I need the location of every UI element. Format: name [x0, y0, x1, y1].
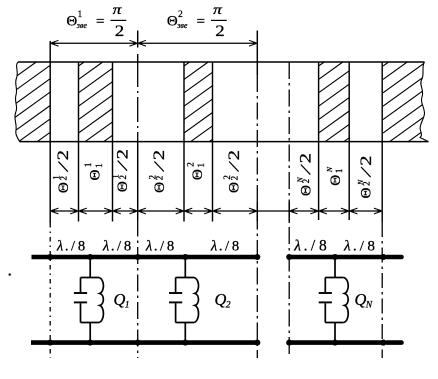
svg-text:2: 2	[296, 153, 315, 163]
center line x=382 lower dash-dot	[381, 222, 383, 358]
svg-text:Θ: Θ	[226, 182, 243, 193]
wire stem bottom of Q2	[184, 323, 186, 343]
svg-text:2: 2	[186, 162, 196, 167]
svg-text:2: 2	[229, 176, 239, 181]
rotated label Theta^1_2/2	[52, 150, 73, 193]
hatch fill block A	[12, 62, 50, 142]
svg-text:2: 2	[112, 149, 131, 159]
loop bottom bar	[325, 322, 344, 324]
center line x=50 dash-dot lower part	[49, 223, 51, 358]
stripline bar bottom edge	[20, 141, 429, 143]
wire stem top of Q2	[184, 257, 186, 278]
hatch fill block E	[383, 62, 429, 142]
bottom transmission line left span	[31, 340, 257, 345]
svg-text:Θ: Θ	[55, 182, 72, 193]
wire stem bottom of Q1	[89, 323, 91, 343]
svg-text:1: 1	[196, 163, 206, 168]
svg-text:Θ: Θ	[87, 170, 104, 181]
svg-text:Θ: Θ	[358, 188, 375, 199]
hatch fill block D	[319, 62, 350, 142]
svg-text:λ./8: λ./8	[210, 239, 239, 255]
rotated label Theta^2_2/2	[148, 150, 169, 193]
rotated label Theta^N_1	[325, 166, 344, 186]
loop top bar	[81, 277, 100, 279]
bottom transmission line right span	[289, 340, 383, 345]
svg-text:Θ: Θ	[151, 182, 168, 193]
svg-text:λ./8: λ./8	[343, 238, 375, 255]
inductor of Q1	[99, 278, 103, 323]
top line right stub	[387, 255, 402, 260]
svg-text:N: N	[325, 166, 334, 173]
top dimension line element 1	[50, 42, 138, 44]
bottom line right stub	[387, 340, 402, 345]
hatch fill block B	[79, 62, 113, 142]
center line x=382 solid upper	[381, 62, 383, 222]
rotated label Theta^2_2/2	[222, 150, 243, 193]
svg-text:2: 2	[53, 150, 72, 160]
rotated label Theta^N_2/2	[296, 153, 315, 196]
capacitor of Q2	[175, 278, 177, 293]
top transmission line right span	[289, 255, 383, 260]
boundary line x=184	[183, 62, 185, 222]
svg-text:зве: зве	[176, 21, 188, 30]
svg-text:2: 2	[361, 181, 371, 186]
rotated label Theta^N_2/2	[356, 155, 375, 198]
svg-text:1: 1	[334, 169, 344, 174]
wire stem bottom of QN	[334, 323, 336, 343]
loop bottom bar	[176, 322, 195, 324]
boundary line x=349	[348, 62, 350, 220]
svg-text:Θ: Θ	[297, 185, 314, 196]
svg-text:2: 2	[356, 155, 375, 165]
rotated label Theta^1_1	[83, 163, 104, 181]
svg-text:λ./8: λ./8	[56, 239, 85, 255]
capacitor of Q1	[80, 278, 82, 293]
boundary line x=78	[78, 62, 80, 222]
svg-text:2: 2	[178, 10, 183, 20]
center line x=138 dash-dot through bar	[137, 54, 139, 62]
wire stem top of QN	[334, 257, 336, 278]
rotated label Theta^2_1	[186, 162, 207, 180]
stripline bar top edge	[18, 61, 425, 63]
boundary line x=112.5	[112, 62, 114, 222]
svg-text:Θ: Θ	[327, 175, 344, 186]
svg-text:2: 2	[149, 150, 168, 160]
center line x=289 dash-dot	[288, 62, 290, 358]
conductor block E (right, broken edge)	[383, 62, 429, 142]
svg-text:Θ: Θ	[167, 14, 178, 30]
top dimension line element 2	[138, 42, 258, 44]
svg-text:1: 1	[94, 163, 104, 168]
boundary line x=318.6	[318, 62, 320, 220]
bar right break (wavy) edge	[420, 62, 429, 142]
svg-text:2: 2	[301, 179, 311, 184]
rotated label Theta^1_2/2	[111, 149, 132, 192]
loop top bar	[325, 277, 344, 279]
capacitor of QN	[324, 278, 326, 293]
svg-text:=: =	[197, 14, 205, 30]
inductor of Q2	[194, 278, 198, 323]
svg-text:=: =	[96, 14, 104, 30]
extension line x=50 (solid part)	[49, 41, 51, 223]
svg-text:2: 2	[224, 150, 243, 160]
center line x=138 lower dash-dot	[137, 220, 139, 359]
svg-text:Θ: Θ	[66, 14, 77, 30]
svg-text:Θ: Θ	[189, 169, 206, 180]
loop bottom bar	[81, 322, 100, 324]
svg-text:2: 2	[115, 23, 124, 40]
svg-text:λ./8: λ./8	[102, 239, 131, 255]
svg-text:1: 1	[78, 10, 83, 20]
top transmission line left span	[32, 255, 258, 260]
svg-text:зве: зве	[76, 21, 88, 30]
svg-text:2: 2	[118, 175, 128, 180]
svg-text:λ./8: λ./8	[145, 239, 174, 255]
center line x=289 solid at dim row	[288, 202, 290, 221]
svg-text:1: 1	[83, 163, 93, 168]
hatch fill block C	[184, 62, 213, 142]
center line x=257 dash-dot	[256, 75, 258, 358]
loop top bar	[176, 277, 195, 279]
center line x=138 label region solid	[137, 142, 139, 220]
junction dots	[47, 254, 53, 260]
wire stem top of Q1	[89, 257, 91, 278]
inductor of QN	[344, 278, 348, 323]
lower dimension line	[50, 210, 382, 212]
center line x=138 upper extension	[137, 31, 139, 48]
stray speck	[9, 273, 11, 275]
svg-text:2: 2	[59, 176, 69, 181]
svg-text:2: 2	[215, 23, 224, 40]
center line x=257 solid at dim row	[256, 202, 258, 221]
svg-text:λ./8: λ./8	[293, 238, 327, 255]
svg-text:Θ: Θ	[114, 181, 131, 192]
center line x=257 upper solid	[256, 31, 258, 76]
boundary line x=212.5	[212, 62, 214, 222]
svg-text:2: 2	[155, 176, 165, 181]
bar left break (wavy) edge	[15, 62, 20, 142]
dim arrows	[50, 209, 55, 212]
conductor section block A (left, broken edge)	[12, 62, 50, 142]
